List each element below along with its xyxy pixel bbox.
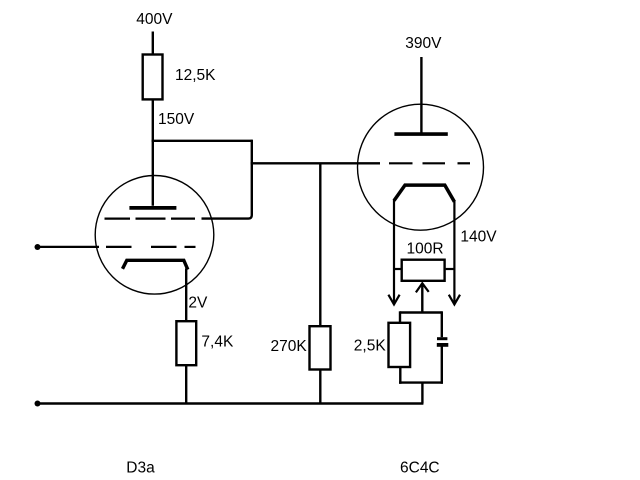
filament lead right <box>453 201 455 305</box>
svg-text:270K: 270K <box>271 338 308 355</box>
lead 100R right <box>446 268 455 270</box>
screen grid g2 dashes <box>105 218 131 220</box>
svg-text:2,5K: 2,5K <box>354 338 387 355</box>
triode V1 envelope <box>95 176 214 295</box>
ground rail <box>38 402 424 405</box>
cathode network bottom wire <box>399 381 443 383</box>
wire cathode to R2 <box>185 269 187 322</box>
input terminal dot <box>35 244 41 250</box>
svg-text:140V: 140V <box>460 229 497 246</box>
filament cathode V2 <box>394 185 454 202</box>
input wire <box>38 246 100 248</box>
wire R4 down <box>399 367 401 384</box>
wire down to R4 <box>399 311 401 322</box>
svg-text:150V: 150V <box>158 111 195 128</box>
cathode V1 <box>123 260 188 269</box>
resistor R2 7,4K <box>176 321 196 365</box>
capacitor C1 plate top <box>437 337 447 340</box>
wire from 400V to R1 <box>152 32 154 56</box>
wire to ground rail <box>421 383 423 404</box>
capacitor C1 plate bottom <box>437 343 449 347</box>
anode plate V1 <box>129 206 176 210</box>
wire R1 to plate of V1 <box>152 99 154 206</box>
wire R2 to ground rail <box>185 366 187 404</box>
svg-text:12,5K: 12,5K <box>175 67 216 84</box>
filament lead left <box>393 199 395 304</box>
wire R3 to ground rail <box>319 370 321 404</box>
resistor R3 270K <box>310 326 331 369</box>
wiper stem <box>421 283 423 312</box>
resistor R4 2,5K <box>389 323 411 367</box>
svg-text:390V: 390V <box>405 35 442 52</box>
grid V2 dashes <box>389 162 413 164</box>
svg-text:6C4C: 6C4C <box>400 460 440 477</box>
wire 390V to plate of V2 <box>420 57 422 133</box>
ground terminal dot <box>35 401 41 407</box>
wire hum pot to cathode network <box>400 311 442 313</box>
wire anode node horizontal <box>152 140 252 142</box>
lead 100R left <box>394 268 401 270</box>
arrow head right <box>449 295 460 305</box>
svg-text:100R: 100R <box>407 240 444 257</box>
arrow head left <box>388 295 399 305</box>
svg-text:2V: 2V <box>188 295 208 312</box>
anode plate V2 <box>394 132 447 136</box>
svg-text:D3a: D3a <box>126 460 155 477</box>
control grid g1 dashes <box>106 246 132 248</box>
wire riser to screen grid <box>202 140 252 219</box>
wiper arrow <box>416 283 429 292</box>
svg-text:7,4K: 7,4K <box>201 333 234 350</box>
svg-text:400V: 400V <box>136 11 173 28</box>
wire down to C1 <box>441 311 443 337</box>
wire grid node to R3 <box>319 163 321 326</box>
potentiometer 100R <box>402 260 445 281</box>
triode V2 envelope <box>358 104 484 230</box>
wire to grid of V2 <box>251 162 380 164</box>
resistor R1 12,5K <box>143 55 163 100</box>
wire C1 down <box>441 346 443 383</box>
